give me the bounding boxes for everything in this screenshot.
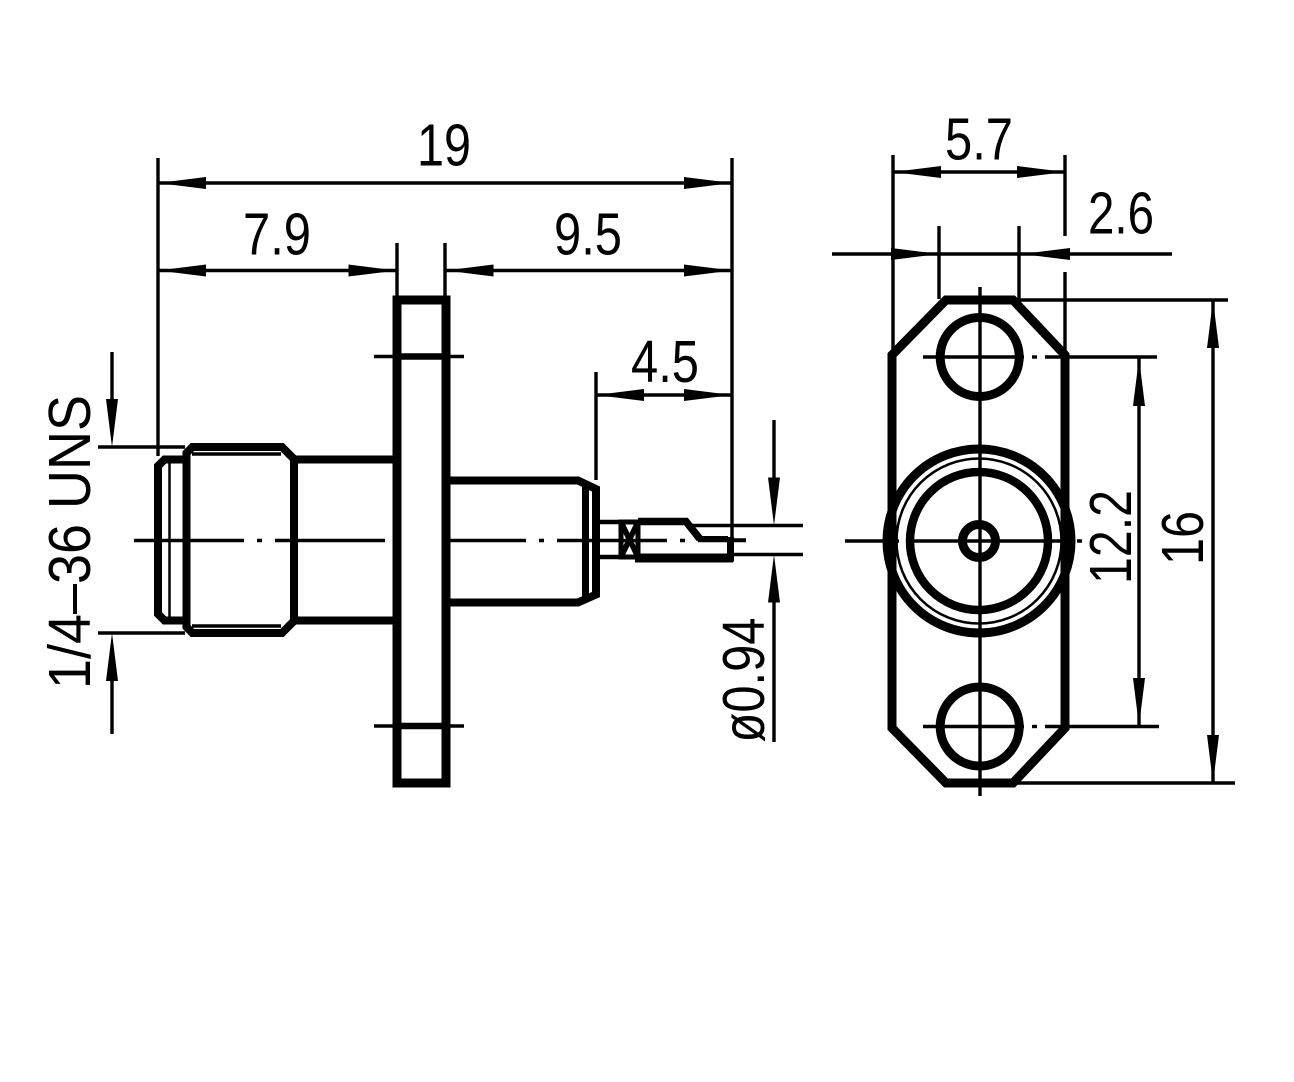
svg-text:12.2: 12.2 [1078, 490, 1144, 584]
svg-text:1/4–36 UNS: 1/4–36 UNS [37, 395, 103, 689]
svg-text:19: 19 [417, 113, 471, 179]
svg-text:7.9: 7.9 [243, 202, 311, 268]
svg-text:2.6: 2.6 [1088, 181, 1154, 247]
svg-text:ø0.94: ø0.94 [711, 618, 777, 743]
svg-text:4.5: 4.5 [631, 329, 699, 395]
svg-text:16: 16 [1150, 511, 1216, 565]
svg-text:9.5: 9.5 [554, 202, 622, 268]
svg-text:5.7: 5.7 [945, 107, 1013, 173]
